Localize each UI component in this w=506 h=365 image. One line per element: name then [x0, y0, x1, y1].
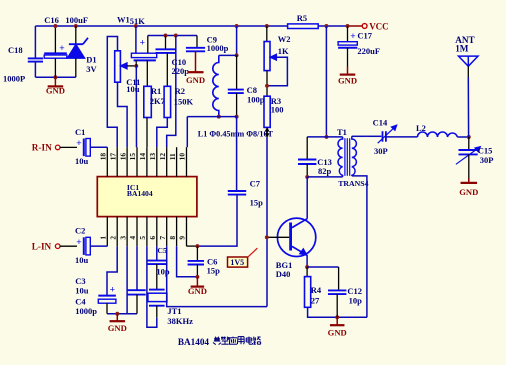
svg-text:1V5: 1V5 — [230, 258, 244, 267]
svg-text:3V: 3V — [86, 64, 97, 74]
svg-text:GND: GND — [186, 75, 205, 85]
svg-text:C7: C7 — [250, 179, 261, 189]
svg-text:+: + — [140, 39, 145, 49]
svg-text:10u: 10u — [75, 156, 89, 166]
svg-text:JT1: JT1 — [167, 306, 181, 316]
svg-text:R4: R4 — [311, 285, 322, 295]
svg-text:4: 4 — [128, 236, 137, 240]
svg-text:150K: 150K — [174, 97, 194, 107]
svg-text:13: 13 — [148, 153, 157, 161]
svg-text:C16: C16 — [44, 15, 59, 25]
svg-text:10p: 10p — [156, 266, 170, 276]
svg-text:15: 15 — [128, 153, 137, 161]
svg-text:18: 18 — [99, 153, 108, 161]
svg-text:+: + — [76, 139, 81, 149]
svg-text:8: 8 — [168, 236, 177, 240]
svg-text:27: 27 — [311, 295, 320, 305]
svg-text:6: 6 — [148, 236, 157, 240]
svg-text:W1: W1 — [117, 15, 130, 25]
svg-text:BA1404: BA1404 — [178, 337, 210, 347]
svg-text:82p: 82p — [318, 166, 332, 176]
svg-text:11: 11 — [168, 153, 177, 160]
svg-text:100p: 100p — [247, 95, 265, 105]
svg-text:15p: 15p — [207, 266, 221, 276]
svg-text:10u: 10u — [75, 255, 89, 265]
svg-text:C1: C1 — [75, 127, 85, 137]
svg-text:BA1404: BA1404 — [127, 189, 153, 198]
svg-text:2: 2 — [108, 236, 117, 240]
svg-text:T1: T1 — [337, 127, 347, 137]
svg-text:GND: GND — [188, 286, 207, 296]
svg-text:10u: 10u — [75, 285, 89, 295]
svg-text:R5: R5 — [297, 13, 307, 23]
svg-text:+: + — [350, 32, 355, 42]
svg-text:L-IN: L-IN — [32, 241, 52, 251]
svg-text:17: 17 — [108, 153, 117, 161]
svg-text:C15: C15 — [478, 146, 493, 156]
svg-text:30P: 30P — [374, 146, 388, 156]
svg-text:GND: GND — [46, 86, 65, 96]
svg-text:7: 7 — [158, 236, 167, 240]
svg-text:10: 10 — [178, 153, 187, 161]
svg-text:C17: C17 — [357, 30, 372, 40]
svg-text:C5: C5 — [157, 246, 167, 255]
svg-text:14: 14 — [138, 153, 147, 161]
svg-text:D40: D40 — [276, 269, 291, 279]
svg-text:GND: GND — [338, 75, 357, 85]
svg-text:C4: C4 — [75, 297, 86, 307]
svg-text:38KHz: 38KHz — [167, 316, 193, 326]
svg-text:GND: GND — [328, 328, 347, 338]
svg-text:VCC: VCC — [369, 21, 389, 31]
svg-text:R1: R1 — [151, 86, 161, 96]
svg-text:C14: C14 — [373, 118, 388, 128]
svg-text:L1 Φ0.45mm Φ8/10T: L1 Φ0.45mm Φ8/10T — [198, 129, 274, 138]
svg-text:+: + — [110, 286, 115, 296]
svg-text:W2: W2 — [278, 34, 291, 44]
svg-text:5: 5 — [138, 236, 147, 240]
svg-text:TRANS4: TRANS4 — [338, 179, 368, 188]
svg-text:100: 100 — [271, 105, 284, 115]
svg-text:GND: GND — [459, 187, 478, 197]
svg-text:1000P: 1000P — [3, 74, 25, 84]
svg-text:+: + — [76, 238, 81, 248]
svg-text:R2: R2 — [175, 86, 185, 96]
svg-text:1: 1 — [99, 236, 108, 240]
svg-text:9: 9 — [178, 236, 187, 240]
svg-text:10p: 10p — [349, 295, 363, 305]
svg-text:16: 16 — [118, 153, 127, 161]
svg-text:R-IN: R-IN — [32, 142, 52, 152]
svg-text:1K: 1K — [278, 46, 289, 56]
svg-text:C18: C18 — [8, 45, 23, 55]
svg-text:1M: 1M — [455, 43, 469, 53]
svg-text:1000p: 1000p — [75, 306, 97, 316]
svg-text:2K7: 2K7 — [150, 96, 166, 106]
svg-text:GND: GND — [108, 323, 127, 333]
svg-text:3: 3 — [118, 236, 127, 240]
svg-text:12: 12 — [158, 153, 167, 161]
svg-text:15p: 15p — [250, 197, 264, 207]
svg-text:51K: 51K — [130, 16, 146, 26]
svg-text:C2: C2 — [75, 226, 85, 236]
svg-text:30P: 30P — [480, 155, 494, 165]
svg-text:L2: L2 — [416, 123, 426, 133]
svg-text:10u: 10u — [126, 84, 140, 94]
svg-text:1000p: 1000p — [207, 43, 229, 53]
svg-text:100uF: 100uF — [65, 15, 88, 25]
svg-text:220uF: 220uF — [357, 46, 380, 56]
